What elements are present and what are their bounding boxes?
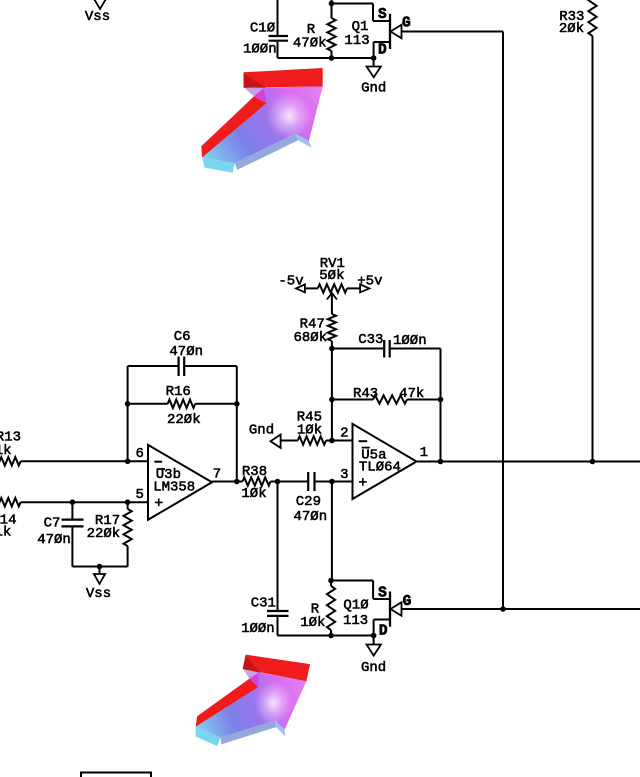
svg-text:5Øk: 5Øk <box>319 268 344 284</box>
resistor R43 47k <box>332 386 441 404</box>
potentiometer RV1 50k <box>296 256 369 314</box>
svg-text:Gnd: Gnd <box>249 423 274 439</box>
svg-text:TLØ64: TLØ64 <box>359 459 401 475</box>
svg-text:5: 5 <box>135 487 143 503</box>
resistor R45 10k <box>281 410 332 445</box>
node dot R top <box>329 1 335 7</box>
svg-text:C6: C6 <box>174 329 191 345</box>
svg-text:+: + <box>358 475 367 492</box>
svg-text:Q1Ø: Q1Ø <box>343 598 368 614</box>
gate arrow of Q1 <box>391 25 402 39</box>
svg-text:LM358: LM358 <box>153 480 195 496</box>
wire C33 right branch down <box>440 349 442 462</box>
node dot R16 right <box>234 401 240 407</box>
node dot R bottom at Q10 <box>328 633 334 639</box>
decorative 3D arrow (bottom) <box>192 643 310 761</box>
capacitor C33 100n <box>332 332 441 358</box>
svg-text:S: S <box>378 586 387 602</box>
resistor R 470k (vertical) <box>293 4 336 59</box>
node dot R38/C31 tap <box>275 479 281 485</box>
svg-text:1k: 1k <box>0 524 11 540</box>
svg-text:47Øk: 47Øk <box>293 36 327 52</box>
svg-text:Gnd: Gnd <box>361 80 386 96</box>
node dot pin2 junction <box>329 438 335 444</box>
node dot R17 tap <box>125 499 131 505</box>
node dot output at R33 branch <box>590 459 596 465</box>
svg-text:+: + <box>154 496 163 513</box>
wire Q10 top rail <box>331 580 373 582</box>
node dot C7 tap <box>70 499 76 505</box>
svg-text:1Øk: 1Øk <box>241 486 266 502</box>
wire inverting net vertical (R47 to pin2) <box>331 349 333 441</box>
ground Gnd at R45 <box>249 423 281 448</box>
capacitor C29 470n <box>296 472 353 510</box>
decorative 3D arrow (top) <box>201 68 322 173</box>
svg-text:6: 6 <box>135 446 143 462</box>
wire Q1 bottom rail <box>278 57 374 59</box>
svg-text:22Øk: 22Øk <box>87 526 121 542</box>
svg-text:47k: 47k <box>399 386 424 402</box>
wire feedback right branch <box>236 366 238 482</box>
svg-text:2Øk: 2Øk <box>559 21 584 37</box>
svg-text:1ØØn: 1ØØn <box>243 41 277 57</box>
resistor R16 220k <box>128 384 237 428</box>
svg-text:C31: C31 <box>251 596 276 612</box>
svg-text:7: 7 <box>213 467 221 483</box>
wire feedback left branch <box>127 366 129 461</box>
svg-text:47Øn: 47Øn <box>293 509 327 525</box>
node dot R47 bottom / C33 left <box>329 346 335 352</box>
wire Q1 gate net (right and down to Q10) <box>402 32 504 610</box>
node dot Q10 drain rail <box>371 633 377 639</box>
wire U3b output pin 7 <box>212 481 243 483</box>
wire pin 6 <box>21 460 148 462</box>
wire Q10 bottom rail <box>278 635 374 637</box>
svg-text:1k: 1k <box>0 443 12 459</box>
resistor R 10k (vertical at Q10) <box>300 581 335 636</box>
transistor Q10 113 <box>343 581 390 636</box>
svg-text:1ØØn: 1ØØn <box>393 333 427 349</box>
gate arrow of Q10 <box>391 602 402 616</box>
node dot Vss tap <box>97 564 103 570</box>
op-amp U3b LM358 <box>148 445 212 520</box>
wire pin 5 <box>21 501 148 503</box>
wire output pin 1 net <box>417 461 640 463</box>
node dot pin6 feedback tap <box>125 459 131 465</box>
svg-text:C7: C7 <box>44 515 61 531</box>
node dot Q10 top rail <box>328 578 334 584</box>
svg-text:68Øk: 68Øk <box>293 330 327 346</box>
node dot gate net at Q10 gate wire <box>500 606 506 612</box>
svg-text:Vss: Vss <box>86 586 111 602</box>
svg-text:113: 113 <box>343 613 368 629</box>
svg-text:C33: C33 <box>358 332 383 348</box>
wire Vss rail <box>72 566 127 568</box>
svg-text:C29: C29 <box>296 494 321 510</box>
resistor R38 10k <box>241 464 307 502</box>
transistor Q1 113 <box>344 4 390 59</box>
svg-text:2: 2 <box>340 425 348 441</box>
svg-text:R16: R16 <box>166 384 191 400</box>
svg-text:47Øn: 47Øn <box>37 532 71 548</box>
wire R top <box>331 0 333 4</box>
svg-text:C1Ø: C1Ø <box>250 20 275 36</box>
resistor R33 20k (top right, partial) <box>559 0 597 37</box>
capacitor C10 <box>250 0 288 58</box>
resistor R47 680k <box>293 314 336 349</box>
svg-text:R38: R38 <box>242 464 267 480</box>
node dot R43 right <box>438 397 444 403</box>
power symbol Vss (below C7/R17) <box>86 567 111 602</box>
svg-text:D: D <box>378 43 387 59</box>
svg-text:47Øn: 47Øn <box>169 344 203 360</box>
svg-text:1ØØn: 1ØØn <box>241 621 275 637</box>
wire R33 to output node <box>592 36 594 462</box>
node dot output at C33/R43 branch <box>438 459 444 465</box>
svg-text:D: D <box>379 623 388 639</box>
node dot pin3 junction <box>329 479 335 485</box>
svg-text:-5v: -5v <box>278 273 303 289</box>
svg-text:1Øk: 1Øk <box>300 615 325 631</box>
svg-text:G: G <box>403 594 412 610</box>
svg-text:3: 3 <box>340 467 348 483</box>
node dot Q1 drain rail <box>371 55 377 61</box>
ground Gnd below Q10 <box>361 636 386 677</box>
wire pin 2 <box>332 440 353 442</box>
node dot R16 left <box>125 401 131 407</box>
svg-text:22Øk: 22Øk <box>167 412 201 428</box>
box outline (bottom edge, partial) <box>81 773 151 777</box>
capacitor C6 470n <box>128 329 237 376</box>
capacitor C31 100n <box>251 482 289 636</box>
power symbol Vss (top left, partial) <box>85 0 110 25</box>
svg-text:Gnd: Gnd <box>361 660 386 676</box>
svg-text:+5v: +5v <box>357 273 382 289</box>
resistor R14 1k (left edge, partial) <box>0 498 21 540</box>
node dot feedback at output <box>234 479 240 485</box>
wire Q10 gate net to right edge <box>402 608 640 610</box>
wire pin3 branch down to Q10 rail <box>331 482 333 581</box>
svg-text:G: G <box>402 15 411 31</box>
resistor R13 1k (left edge, partial) <box>0 429 21 465</box>
resistor R17 220k <box>87 502 132 566</box>
svg-text:R43: R43 <box>353 386 378 402</box>
capacitor C7 470n <box>44 502 84 566</box>
svg-text:Vss: Vss <box>85 9 110 25</box>
svg-text:1: 1 <box>420 445 428 461</box>
op-amp U5a TL064 <box>353 424 417 499</box>
svg-text:1Øk: 1Øk <box>297 423 322 439</box>
svg-text:S: S <box>378 7 387 23</box>
node dot R bottom <box>329 55 335 61</box>
svg-text:113: 113 <box>344 33 369 49</box>
node dot R43 left <box>329 397 335 403</box>
ground Gnd below Q1 <box>361 58 386 96</box>
